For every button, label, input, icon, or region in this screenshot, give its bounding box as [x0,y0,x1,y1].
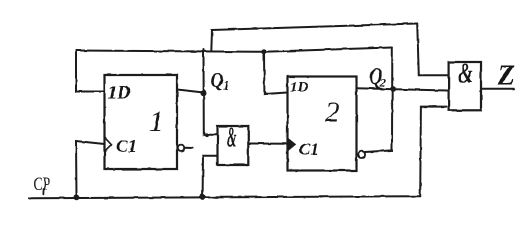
flip-flop 1 box [105,75,178,169]
svg-text:C1: C1 [299,140,319,159]
wire Z output of gate U3 [481,88,514,90]
wire rail right vertical up to gate U3 lower input [420,107,446,197]
wire second feedback line (Q2' net) [76,48,392,52]
junction on second line at FF2 1D drop [261,49,266,54]
wire top line right vertical down to gate U3 upper input [417,24,448,76]
svg-text:CP: CP [34,173,51,195]
svg-text:C1: C1 [116,136,137,156]
wire top feedback line [212,24,417,31]
clock triangle FF2 (filled) [288,138,296,151]
svg-text:&: & [459,59,473,90]
label Q1 [211,70,224,93]
wire Q1 vertical down to gate U2 upper input [204,50,218,135]
and-gate U3 box [449,62,481,110]
wire top line left vertical to second line [210,30,213,51]
wire gate U2 output to C1 of FF2 [248,143,287,145]
svg-text:2: 2 [325,97,340,129]
junction CP rail to gate U2 [200,194,206,200]
inverted output bubble FF2 [358,151,365,158]
label & of gate U2 [227,122,237,153]
label Q2 [370,62,383,90]
label & of gate U3 [459,59,473,90]
junction at gate U2 upper input corner [204,133,208,137]
svg-text:1: 1 [149,106,164,138]
and-gate U2 box [218,126,249,165]
wire Q1 output of FF1 [177,90,204,93]
svg-text:2: 2 [379,76,386,90]
junction Q2 line crossing [390,87,396,93]
wire second line right vertical down to FF2 inverted output [365,48,392,153]
junction Q1 node [201,90,207,96]
svg-text:1D: 1D [108,83,132,104]
clock triangle FF1 [105,138,112,152]
svg-text:Z: Z [497,61,515,92]
flip-flop 2 box [288,77,357,171]
svg-text:&: & [227,122,237,153]
wire CP bottom rail [29,196,420,198]
label CP [34,173,51,195]
wire drop from second line to 1D of FF2 [264,52,288,95]
svg-text:1D: 1D [290,80,309,96]
junction CP rail to FF1 clock [74,194,80,200]
wire CP to C1 of FF1 [76,141,105,198]
svg-text:Q: Q [211,70,224,93]
inverted output bubble FF1 [178,145,184,151]
wire stub from FF1 inverted output [184,147,193,149]
wire Q2 output of FF2 to gate U3 [357,88,448,90]
wire gate U2 lower input from CP rail [203,156,218,197]
svg-text:1: 1 [223,78,230,93]
wire left drop to 1D of FF1 [76,51,105,92]
